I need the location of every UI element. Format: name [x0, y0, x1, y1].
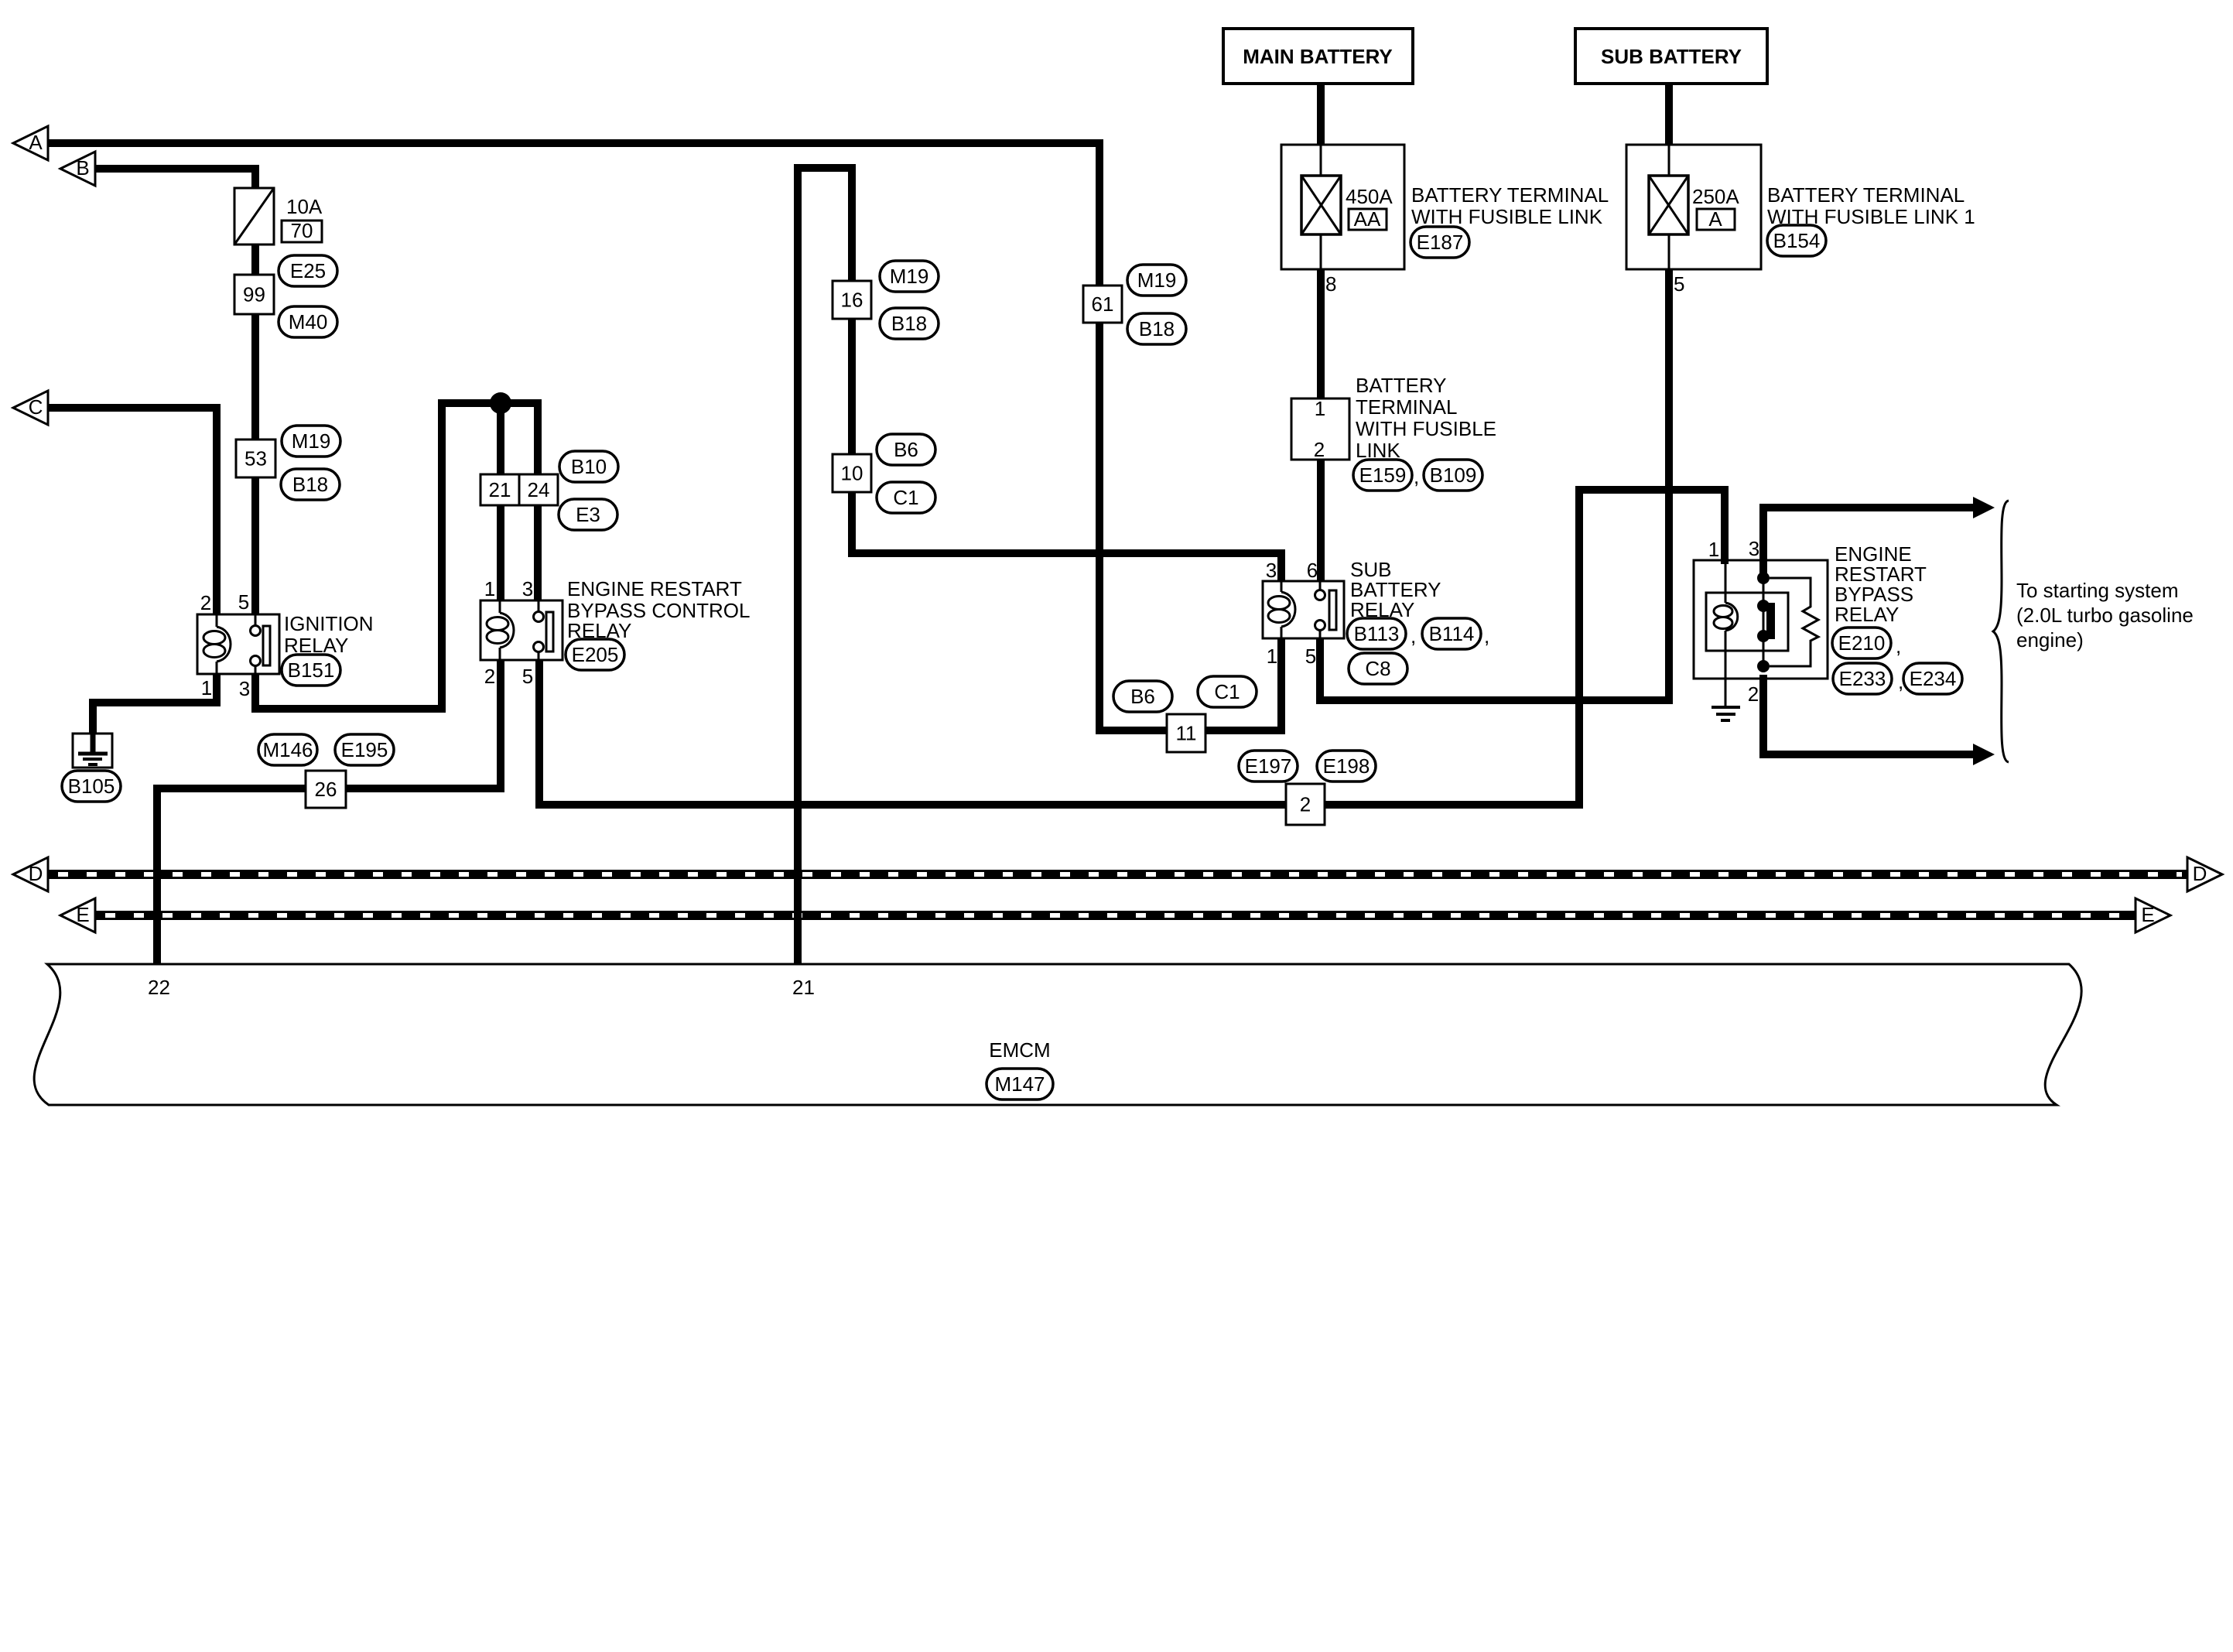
connector oval M40 [279, 306, 337, 337]
connector 16 [833, 281, 871, 319]
svg-text:450A: 450A [1346, 185, 1393, 208]
off-page arrow D right [2187, 857, 2222, 891]
wire from connector 11 up to sub battery relay pin 1 [1276, 638, 1281, 730]
connector oval B109 [1424, 460, 1482, 491]
svg-text:SUB BATTERY: SUB BATTERY [1601, 45, 1742, 68]
svg-text:C: C [29, 395, 43, 419]
svg-text:53: 53 [245, 447, 267, 470]
shield wire D dashed band [48, 870, 2187, 879]
junction node dot [490, 392, 511, 414]
svg-text:B10: B10 [571, 455, 607, 478]
wire sub battery relay pin 5 to B154 fusible link [1320, 269, 1669, 700]
svg-text:B18: B18 [292, 473, 328, 496]
svg-text:1: 1 [1708, 538, 1719, 561]
svg-text:2: 2 [1314, 438, 1325, 461]
fusible link A box [1697, 207, 1735, 231]
connector 99 [234, 275, 274, 314]
svg-text:1: 1 [201, 676, 212, 699]
connector oval B151 [282, 655, 340, 686]
off-page arrow D left [13, 857, 48, 891]
connector oval M19 [880, 261, 939, 292]
svg-text:E198: E198 [1323, 754, 1370, 778]
svg-text:B6: B6 [894, 438, 918, 461]
svg-text:M19: M19 [890, 265, 929, 288]
svg-text:3: 3 [239, 677, 250, 700]
connector oval B105 [62, 771, 121, 802]
wire main battery to E187 [1317, 82, 1325, 145]
svg-text:10: 10 [841, 462, 863, 485]
connector oval M19 [282, 426, 340, 457]
connector oval B18 [880, 308, 939, 339]
svg-text:21: 21 [792, 976, 815, 999]
fusible link AA box [1349, 207, 1387, 231]
connector oval B113 [1347, 618, 1406, 649]
connector oval E234 [1903, 663, 1962, 694]
E210 coil ground [1712, 707, 1740, 720]
wire connector 53 to ignition relay pin 5 [251, 474, 259, 614]
ground symbol B105 [73, 734, 112, 768]
sub battery relay B113/B114/C8 [1263, 581, 1344, 638]
connector oval E210 [1832, 628, 1891, 658]
wire ignition relay pin 1 to ground B105 [93, 674, 217, 735]
connector oval B6 [877, 434, 935, 465]
svg-text:B109: B109 [1430, 463, 1477, 487]
connector oval B6 [1113, 681, 1172, 712]
svg-text:5: 5 [522, 665, 533, 688]
svg-text:AA: AA [1354, 207, 1381, 231]
connector oval B114 [1422, 618, 1481, 649]
EMCM module box M147 [34, 964, 2081, 1105]
svg-text:,: , [1411, 624, 1416, 648]
battery terminal with fusible link 1/2 connector [1291, 397, 1349, 461]
svg-text:99: 99 [243, 283, 265, 306]
connector oval B18 [1127, 313, 1186, 344]
svg-text:21: 21 [489, 478, 511, 501]
svg-text:A: A [1708, 207, 1722, 231]
svg-text:,: , [1414, 465, 1419, 488]
svg-text:,: , [1484, 624, 1489, 648]
wire connector 99 to connector 53 [251, 311, 259, 446]
ignition relay B151 [197, 614, 279, 674]
svg-text:2: 2 [1748, 682, 1759, 706]
svg-text:M19: M19 [1137, 268, 1177, 292]
svg-text:E205: E205 [572, 643, 619, 666]
svg-text:250A: 250A [1692, 185, 1739, 208]
svg-text:16: 16 [841, 289, 863, 312]
svg-text:E197: E197 [1245, 754, 1292, 778]
battery terminal with fusible link E187 box [1281, 145, 1404, 269]
svg-text:6: 6 [1307, 559, 1318, 582]
wire junction down through connector 21 to E205 pin 1 [497, 403, 504, 474]
svg-text:61: 61 [1092, 292, 1114, 316]
svg-text:24: 24 [528, 478, 550, 501]
svg-text:To starting system: To starting system [2016, 579, 2179, 602]
svg-text:B6: B6 [1130, 685, 1155, 708]
battery terminal with fusible link 1 B154 box [1626, 145, 1761, 269]
svg-text:A: A [29, 131, 43, 154]
wire E210 pin 3 and arrow to starting system (upper) [1763, 508, 1975, 578]
svg-text:engine): engine) [2016, 628, 2084, 652]
wire E205 pin 2 to connector 26 to EMCM pin 22 [157, 660, 501, 964]
wire E210 pin 2 and arrow to starting system (lower) [1763, 679, 1975, 754]
svg-text:2: 2 [200, 591, 211, 614]
svg-text:BATTERY: BATTERY [1356, 374, 1447, 397]
svg-text:5: 5 [1674, 272, 1684, 296]
svg-text:5: 5 [1305, 645, 1316, 668]
wire E205 pin 5 through connector 2 up and over to E210 pin 1 [539, 490, 1725, 805]
svg-text:M146: M146 [262, 738, 313, 761]
svg-text:C1: C1 [893, 486, 918, 509]
wire A horizontal and down to connector 11 [48, 143, 1276, 730]
wire EMCM pin 21 over shield lines [794, 851, 802, 964]
svg-text:2: 2 [1300, 793, 1311, 816]
svg-text:3: 3 [1266, 559, 1277, 582]
connector 10 [833, 454, 871, 492]
svg-text:TERMINAL: TERMINAL [1356, 395, 1457, 419]
svg-text:1: 1 [1267, 645, 1277, 668]
svg-text:(2.0L turbo gasoline: (2.0L turbo gasoline [2016, 604, 2194, 627]
svg-text:22: 22 [148, 976, 170, 999]
svg-text:3: 3 [1749, 537, 1759, 560]
svg-text:1: 1 [1315, 397, 1325, 420]
bridge wire and EMCM pin 21 vertical [798, 168, 1281, 964]
svg-text:ENGINE RESTART: ENGINE RESTART [567, 577, 742, 600]
svg-text:B114: B114 [1429, 622, 1475, 645]
svg-text:E159: E159 [1359, 463, 1407, 487]
connector 61 [1083, 286, 1122, 323]
E210 resistor [1770, 578, 1818, 666]
connector oval B10 [559, 451, 618, 482]
svg-text:B18: B18 [1139, 317, 1175, 340]
connector 2 [1286, 784, 1325, 825]
svg-text:B154: B154 [1773, 229, 1821, 252]
svg-text:C8: C8 [1365, 657, 1390, 680]
wire terminal box to sub battery relay pin 6 [1317, 457, 1325, 581]
wire sub battery to B154 [1665, 82, 1673, 145]
svg-text:B151: B151 [288, 658, 335, 682]
svg-text:E233: E233 [1839, 667, 1886, 690]
wire ignition relay pin 3 to junction and connector 24 / E205 pin 3 [255, 403, 538, 709]
svg-text:E234: E234 [1910, 667, 1957, 690]
E210 switch contact [1763, 578, 1765, 666]
connector oval M147 [987, 1069, 1053, 1100]
svg-text:26: 26 [315, 778, 337, 801]
connector 26 [306, 771, 346, 808]
connector oval E187 [1411, 227, 1469, 258]
svg-text:E195: E195 [341, 738, 388, 761]
svg-text:B113: B113 [1354, 622, 1400, 645]
connector 11 [1167, 714, 1205, 752]
svg-text:70: 70 [291, 219, 313, 242]
svg-text:5: 5 [238, 590, 249, 614]
svg-text:IGNITION: IGNITION [284, 612, 374, 635]
svg-text:E3: E3 [576, 503, 600, 526]
connector 53 [236, 440, 275, 477]
E210 inner box [1706, 593, 1788, 651]
connector oval B18 [281, 469, 340, 500]
connector oval E195 [335, 734, 394, 765]
wire EMCM pin 22 over shield lines [153, 851, 161, 964]
svg-text:RELAY: RELAY [1835, 603, 1899, 626]
connector oval E197 [1239, 751, 1298, 782]
svg-text:2: 2 [484, 665, 495, 688]
svg-text:11: 11 [1176, 722, 1197, 745]
E210 coil [1725, 560, 1727, 603]
svg-text:B: B [76, 156, 89, 180]
connector oval C1 [1198, 676, 1257, 707]
svg-text:D: D [2193, 862, 2207, 885]
connector oval E3 [559, 499, 617, 530]
svg-text:1: 1 [484, 577, 495, 600]
svg-text:D: D [29, 862, 43, 885]
connector oval E233 [1833, 663, 1892, 694]
fuse 10A #70 [234, 188, 274, 245]
connector oval C8 [1349, 653, 1407, 684]
svg-text:3: 3 [522, 577, 533, 600]
SUB BATTERY box [1575, 29, 1767, 84]
wire C to ignition relay pin 2 [48, 408, 217, 614]
engine restart bypass relay E210 outer box [1694, 560, 1828, 707]
connector oval E159 [1353, 460, 1412, 491]
brace to starting system [1993, 501, 2009, 762]
fuse number box 70 [282, 219, 322, 242]
svg-text:E: E [2141, 903, 2154, 926]
svg-text:WITH FUSIBLE LINK: WITH FUSIBLE LINK [1411, 205, 1603, 228]
engine restart bypass control relay E205 [480, 600, 563, 660]
svg-text:8: 8 [1325, 272, 1336, 296]
connector oval B154 [1767, 225, 1826, 256]
svg-text:M40: M40 [289, 310, 328, 333]
svg-text:BATTERY TERMINAL: BATTERY TERMINAL [1411, 183, 1609, 207]
svg-text:10A: 10A [286, 195, 323, 218]
svg-text:MAIN BATTERY: MAIN BATTERY [1243, 45, 1393, 68]
connector oval M146 [258, 734, 317, 765]
connector oval E198 [1317, 751, 1376, 782]
svg-text:E210: E210 [1838, 631, 1886, 655]
svg-text:,: , [1896, 634, 1901, 658]
off-page arrow E left [60, 898, 95, 932]
arrowhead upper starting system [1973, 497, 1995, 518]
shield wire E dashed band [95, 911, 2136, 920]
svg-text:C1: C1 [1214, 680, 1240, 703]
svg-text:E: E [76, 903, 89, 926]
connector oval E205 [566, 639, 624, 670]
svg-text:E25: E25 [290, 259, 326, 282]
off-page arrow E right [2136, 898, 2170, 932]
svg-text:B105: B105 [68, 775, 115, 798]
svg-text:E187: E187 [1417, 231, 1464, 254]
wire E187 to terminal 1/2 box [1317, 269, 1325, 402]
svg-text:EMCM: EMCM [989, 1038, 1050, 1062]
connector pair 21 | 24 [480, 474, 558, 505]
svg-text:BATTERY TERMINAL: BATTERY TERMINAL [1767, 183, 1965, 207]
fusible link symbol 250A [1649, 176, 1688, 234]
MAIN BATTERY box [1223, 29, 1413, 84]
off-page arrow B [60, 152, 95, 186]
svg-text:M147: M147 [994, 1072, 1045, 1096]
connector oval M19 [1127, 265, 1186, 296]
off-page arrow C [13, 391, 48, 425]
off-page arrow A [13, 126, 48, 160]
wire B to fuse [95, 169, 255, 192]
svg-text:B18: B18 [891, 312, 927, 335]
wire fuse to connector 99 [251, 245, 259, 279]
fusible link symbol 450A [1301, 176, 1341, 234]
connector oval E25 [279, 255, 337, 286]
connector oval C1 [877, 482, 935, 513]
svg-text:WITH FUSIBLE: WITH FUSIBLE [1356, 417, 1496, 440]
arrowhead lower starting system [1973, 744, 1995, 765]
svg-text:M19: M19 [292, 429, 331, 453]
